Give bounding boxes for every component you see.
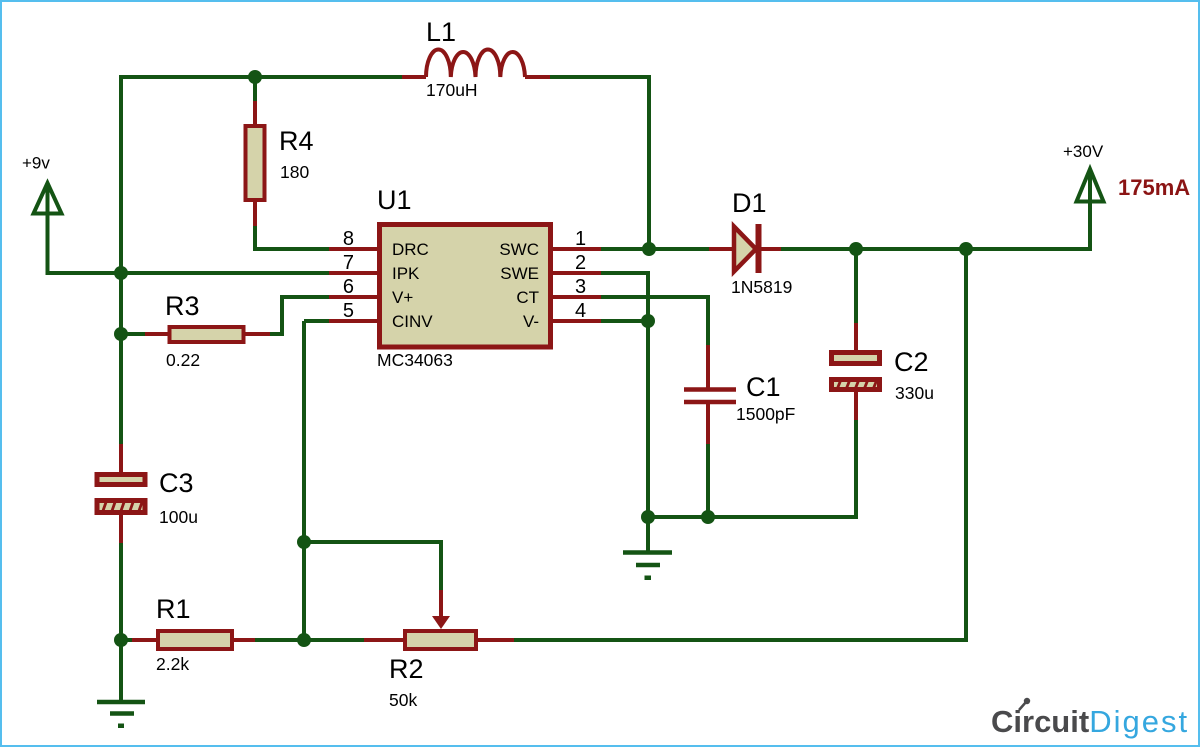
svg-text:V+: V+: [392, 288, 413, 307]
svg-text:5: 5: [343, 300, 354, 322]
svg-text:1N5819: 1N5819: [731, 277, 792, 297]
svg-text:C3: C3: [159, 468, 194, 498]
svg-text:R3: R3: [165, 291, 200, 321]
svg-text:C2: C2: [894, 347, 929, 377]
svg-text:4: 4: [575, 300, 586, 322]
svg-text:+9v: +9v: [22, 154, 50, 173]
svg-text:DRC: DRC: [392, 240, 429, 259]
svg-text:R4: R4: [279, 126, 314, 156]
svg-text:MC34063: MC34063: [377, 350, 453, 370]
svg-text:U1: U1: [377, 185, 412, 215]
svg-text:180: 180: [280, 162, 309, 182]
svg-text:170uH: 170uH: [426, 80, 478, 100]
svg-text:SWE: SWE: [500, 264, 539, 283]
svg-text:330u: 330u: [895, 383, 934, 403]
svg-text:CT: CT: [516, 288, 539, 307]
svg-text:175mA: 175mA: [1118, 175, 1190, 200]
svg-text:R2: R2: [389, 654, 424, 684]
svg-text:R1: R1: [156, 594, 191, 624]
svg-text:1: 1: [575, 228, 586, 250]
svg-text:100u: 100u: [159, 507, 198, 527]
svg-text:50k: 50k: [389, 690, 417, 710]
svg-text:L1: L1: [426, 17, 456, 47]
svg-text:2.2k: 2.2k: [156, 654, 189, 674]
svg-text:8: 8: [343, 228, 354, 250]
svg-text:SWC: SWC: [499, 240, 539, 259]
svg-text:1500pF: 1500pF: [736, 404, 795, 424]
svg-text:3: 3: [575, 276, 586, 298]
svg-text:V-: V-: [523, 312, 539, 331]
svg-text:CINV: CINV: [392, 312, 433, 331]
svg-text:2: 2: [575, 252, 586, 274]
svg-text:7: 7: [343, 252, 354, 274]
svg-text:6: 6: [343, 276, 354, 298]
svg-text:C1: C1: [746, 372, 781, 402]
svg-text:+30V: +30V: [1063, 142, 1104, 161]
svg-text:IPK: IPK: [392, 264, 420, 283]
svg-text:D1: D1: [732, 188, 767, 218]
svg-text:0.22: 0.22: [166, 350, 200, 370]
